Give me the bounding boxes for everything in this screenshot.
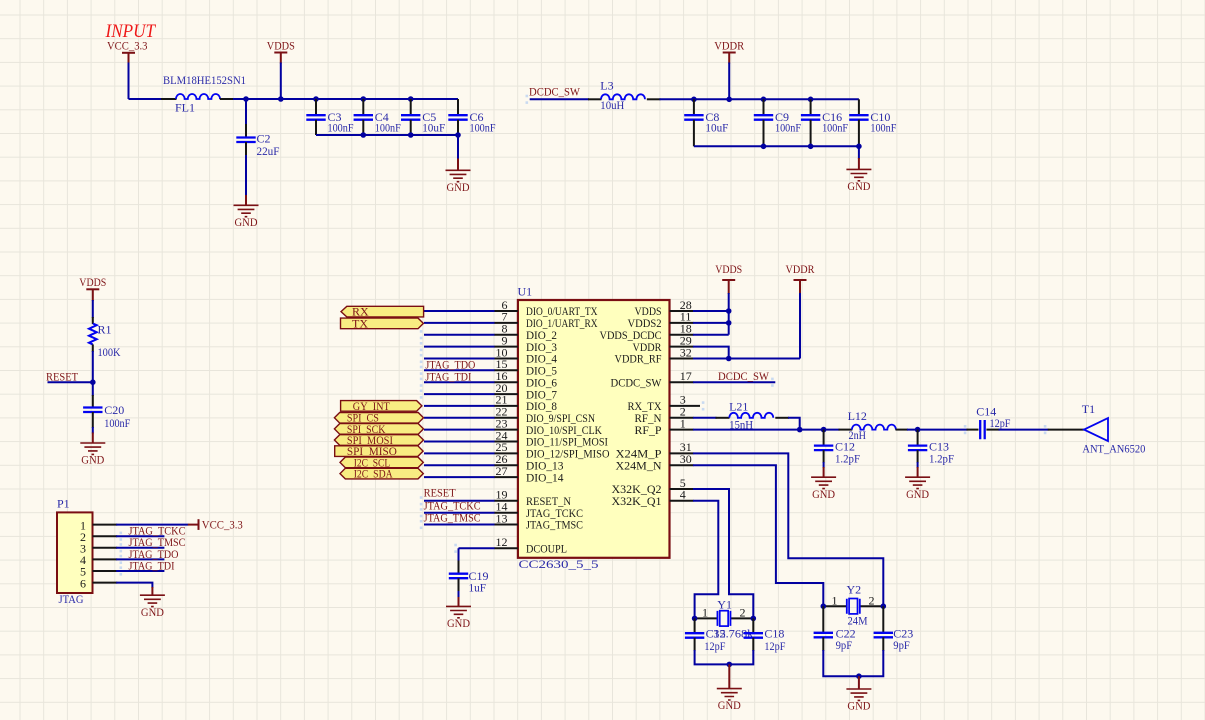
wire pin4 X32K_Q1 to Y1 pin1 — [693, 501, 718, 619]
crystal Y2 24M — [823, 605, 883, 607]
capacitor C10 — [858, 99, 860, 115]
pin 12 DCOUPL — [494, 547, 518, 549]
node Y1 pin1 — [692, 616, 698, 622]
wire C20 to gnd — [92, 427, 94, 434]
svg-text:DCOUPL: DCOUPL — [526, 542, 567, 556]
svg-text:ANT_AN6520: ANT_AN6520 — [1082, 442, 1145, 456]
node pin11 — [726, 320, 732, 326]
wire DIO_3 — [424, 346, 495, 348]
pin 9 DIO_3 — [494, 346, 518, 348]
inductor L12 2nH — [839, 429, 853, 431]
node C8 top — [691, 97, 697, 103]
svg-text:22uF: 22uF — [257, 144, 280, 158]
node C4 top — [361, 96, 367, 102]
svg-text:1uF: 1uF — [469, 581, 487, 595]
svg-text:U1: U1 — [518, 285, 533, 299]
wire pin5 JTAG_TDI — [116, 570, 164, 572]
svg-text:RESET: RESET — [424, 486, 457, 500]
svg-text:100nF: 100nF — [328, 120, 354, 134]
svg-text:10uF: 10uF — [705, 120, 728, 134]
pin 10 DIO_4 — [494, 358, 518, 360]
node VDDS rail — [278, 96, 284, 102]
svg-text:VDDR_RF: VDDR_RF — [615, 352, 662, 366]
svg-text:VDDS: VDDS — [715, 262, 742, 276]
capacitor C12 1.2pF — [823, 430, 825, 446]
pin 6 DIO_0/UART_TX — [494, 310, 518, 312]
inductor L3 10uH — [588, 98, 602, 100]
node C9 top — [761, 97, 767, 103]
pin 27 DIO_14 — [494, 476, 518, 478]
svg-text:I2C_SDA: I2C_SDA — [354, 467, 393, 481]
port RX — [341, 306, 424, 317]
svg-text:VDDR: VDDR — [786, 262, 815, 276]
wire Y2 bottom rail — [823, 650, 883, 676]
svg-text:100nF: 100nF — [470, 120, 496, 134]
node RESET junction — [90, 379, 96, 385]
ground under C12 — [811, 477, 836, 501]
svg-text:JTAG_TDI: JTAG_TDI — [129, 558, 175, 572]
svg-text:JTAG_TMSC: JTAG_TMSC — [526, 518, 583, 532]
wire DIO_9 — [424, 417, 495, 419]
capacitor C6 — [457, 99, 459, 115]
capacitor C3 — [315, 99, 317, 115]
wire end markers — [120, 95, 1047, 576]
pin 1 RF_P — [670, 429, 694, 431]
node C13 tap — [915, 427, 921, 433]
wire DIO_2 — [424, 334, 495, 336]
wire pin32 — [693, 358, 800, 360]
wire bottom rail C8..C10 — [694, 145, 859, 147]
svg-text:1: 1 — [680, 416, 686, 430]
wire pin6 to gnd — [116, 583, 152, 588]
wire C19 to gnd — [458, 591, 460, 598]
wire DIO_5 — [424, 369, 495, 371]
pin 21 DIO_8 — [494, 405, 518, 407]
pin 22 DIO_9/SPI_CSN — [494, 417, 518, 419]
node C5 top — [408, 96, 414, 102]
svg-text:R1: R1 — [98, 323, 112, 337]
svg-text:VDDS: VDDS — [79, 275, 106, 289]
node C10 bottom — [856, 144, 862, 150]
capacitor C19 1uF — [458, 561, 460, 574]
wire pin2 JTAG_TCKC — [116, 535, 164, 537]
svg-text:1.2pF: 1.2pF — [835, 451, 860, 465]
wire pin17 DCDC_SW — [693, 381, 775, 383]
svg-text:27: 27 — [496, 464, 508, 478]
svg-text:9pF: 9pF — [836, 638, 853, 652]
wire DIO_7 — [424, 393, 495, 395]
wire DIO_1 — [424, 322, 495, 324]
svg-text:DCDC_SW: DCDC_SW — [529, 84, 581, 98]
wire C12 to gnd — [823, 462, 825, 468]
capacitor C13 1.2pF — [917, 430, 919, 446]
svg-text:VCC_3.3: VCC_3.3 — [107, 38, 148, 52]
wire pin4 JTAG_TDO — [116, 558, 164, 560]
wire C13 to gnd — [917, 462, 919, 468]
wire main rail left — [129, 98, 163, 100]
wire pin1 RF_P — [693, 429, 840, 431]
node Y1 gnd — [727, 662, 733, 668]
svg-text:DIO_14: DIO_14 — [526, 470, 564, 484]
svg-text:VDDS: VDDS — [267, 38, 295, 52]
port I2C_SDA — [340, 468, 423, 479]
wire VCC_3.3 vertical — [128, 63, 130, 100]
node C16 bottom — [808, 144, 814, 150]
wire VDDR vertical to pin32 — [799, 293, 801, 359]
capacitor C4 — [362, 99, 364, 115]
svg-text:P1: P1 — [57, 497, 70, 511]
node C6 bottom — [455, 132, 461, 138]
svg-text:30: 30 — [680, 452, 692, 466]
wire rail C2 to VDDS — [246, 98, 281, 100]
svg-text:4: 4 — [680, 488, 686, 502]
pin 30 X24M_N — [670, 464, 694, 466]
svg-text:100nF: 100nF — [104, 416, 130, 430]
wire rail L3 to C10 — [660, 98, 859, 100]
ground under Y1 — [717, 689, 742, 713]
inductor L21 15nH — [693, 417, 717, 419]
svg-text:VCC_3.3: VCC_3.3 — [202, 518, 243, 532]
wire DIO_11 — [424, 441, 495, 443]
wire L12 to C14 — [907, 429, 968, 431]
svg-text:12: 12 — [496, 535, 508, 549]
pin 23 DIO_10/SPI_CLK — [494, 429, 518, 431]
capacitor C8 — [693, 99, 695, 115]
pin 8 DIO_2 — [494, 334, 518, 336]
pin 26 DIO_13 — [494, 464, 518, 466]
svg-text:2: 2 — [869, 593, 875, 607]
wire DIO_13 — [424, 464, 495, 466]
svg-text:BLM18HE152SN1: BLM18HE152SN1 — [163, 73, 246, 87]
wire pin12 DCOUPL to C19 — [459, 548, 495, 561]
svg-text:FL1: FL1 — [175, 101, 195, 115]
svg-text:L3: L3 — [600, 79, 613, 93]
wire DCDC_SW to L3 — [530, 98, 589, 100]
wire bottom rail C3..C6 — [316, 134, 458, 136]
port TX — [341, 318, 424, 329]
svg-text:12pF: 12pF — [704, 639, 725, 653]
node C4 bottom — [361, 132, 367, 138]
svg-text:X32K_Q1: X32K_Q1 — [612, 494, 662, 508]
wire DIO_8 — [424, 405, 495, 407]
node C5 bottom — [408, 132, 414, 138]
node Y2 gnd — [856, 673, 862, 679]
pin 5 X32K_Q2 — [670, 488, 694, 490]
pin 11 VDDS2 — [670, 322, 694, 324]
ground under C20 — [80, 443, 105, 467]
svg-text:JTAG: JTAG — [59, 592, 84, 606]
pin 28 VDDS — [670, 310, 694, 312]
wire C2 to gnd — [245, 155, 247, 196]
wire DIO_14 — [424, 476, 495, 478]
node C16 top — [808, 97, 814, 103]
wire DIO_0 — [424, 310, 495, 312]
pin 20 DIO_7 — [494, 393, 518, 395]
wire DIO_4 — [424, 358, 495, 360]
svg-text:1: 1 — [832, 593, 838, 607]
pin 25 DIO_12/SPI_MISO — [494, 452, 518, 454]
svg-text:9pF: 9pF — [893, 638, 910, 652]
svg-text:100nF: 100nF — [870, 120, 896, 134]
svg-text:10uH: 10uH — [600, 98, 624, 112]
wire L21 to RF_P junction — [788, 418, 800, 430]
wire rail to C2 junction — [233, 98, 246, 100]
pin 17 DCDC_SW — [670, 381, 694, 383]
resistor R1 100K — [92, 317, 94, 324]
node RF junction — [797, 427, 803, 433]
svg-text:CC2630_5_5: CC2630_5_5 — [519, 557, 599, 571]
port SPI_SCK — [334, 424, 423, 435]
wire Y1 bottom rail — [695, 650, 754, 664]
wire pin1 to VCC_3.3 — [116, 524, 188, 526]
wire C6 to gnd — [457, 135, 459, 160]
capacitor C20 — [92, 395, 94, 408]
pin 31 X24M_P — [670, 452, 694, 454]
svg-text:6: 6 — [80, 576, 86, 590]
node Y1 pin2 — [751, 616, 757, 622]
node C3 top — [313, 96, 319, 102]
IC U1 body — [518, 300, 670, 558]
node Y2 pin2 — [881, 603, 887, 609]
svg-text:24M: 24M — [848, 614, 868, 628]
node pin28 — [726, 308, 732, 314]
svg-text:100K: 100K — [98, 345, 121, 359]
wire DIO_12 — [424, 452, 495, 454]
svg-text:13: 13 — [496, 511, 508, 525]
svg-text:L12: L12 — [848, 409, 867, 423]
connector P1 body — [57, 512, 93, 593]
wire VDDS vertical to pins 28 11 18 — [728, 293, 730, 335]
svg-text:100nF: 100nF — [375, 120, 401, 134]
wire pin5 X32K_Q2 to Y1 pin2 — [693, 489, 753, 618]
wire pin28 — [693, 310, 729, 312]
ground under C19 — [446, 606, 471, 630]
svg-text:X24M_N: X24M_N — [616, 458, 662, 472]
svg-text:12pF: 12pF — [990, 416, 1011, 430]
capacitor C18 12pF — [752, 618, 754, 633]
svg-text:RF_P: RF_P — [635, 423, 662, 437]
wire pin3 JTAG_TMSC — [116, 547, 164, 549]
wire R1 to junction — [92, 351, 94, 396]
ferrite bead FL1 — [161, 98, 177, 100]
capacitor C14 12pF — [967, 429, 979, 431]
svg-text:100nF: 100nF — [822, 120, 848, 134]
capacitor C2 — [245, 99, 247, 125]
svg-text:17: 17 — [680, 369, 692, 383]
pin 16 DIO_6 — [494, 381, 518, 383]
pin 13 JTAG_TMSC — [494, 524, 518, 526]
crystal Y1 32.768k — [695, 617, 754, 619]
port SPI_MISO — [335, 446, 423, 457]
svg-text:32: 32 — [680, 345, 692, 359]
wire DIO_6 — [424, 381, 495, 383]
ground under Y2 — [846, 689, 871, 713]
wire Y2 to gnd — [858, 676, 860, 689]
wire JTAG_TMSC — [424, 524, 495, 526]
svg-text:JTAG_TDI: JTAG_TDI — [425, 370, 471, 384]
wire JTAG_TCKC — [424, 512, 495, 514]
pin 19 RESET_N — [494, 500, 518, 502]
node C2 junction — [243, 96, 249, 102]
capacitor C16 — [810, 99, 812, 115]
capacitor C5 — [410, 99, 412, 115]
power port VCC_3.3 at P1 — [188, 524, 199, 526]
wire pin18 — [693, 334, 729, 336]
capacitor C23 9pF — [882, 606, 884, 633]
wire RESET — [48, 381, 93, 383]
node VDDR rail — [726, 97, 732, 103]
pin 24 DIO_11/SPI_MOSI — [494, 441, 518, 443]
svg-text:10uF: 10uF — [422, 120, 445, 134]
svg-text:1: 1 — [702, 606, 708, 620]
port SPI_MOSI — [334, 435, 423, 446]
ground under P1 pin6 — [140, 595, 165, 619]
svg-text:1.2pF: 1.2pF — [929, 451, 954, 465]
svg-text:JTAG_TMSC: JTAG_TMSC — [424, 510, 481, 524]
node Y2 pin1 — [821, 603, 827, 609]
pin 7 DIO_1/UART_RX — [494, 322, 518, 324]
port SPI_CS — [334, 413, 423, 424]
pin 3 RX_TX — [670, 405, 701, 407]
svg-text:DCDC_SW: DCDC_SW — [611, 375, 663, 389]
pin 2 RF_N — [670, 417, 694, 419]
wire pin29 — [693, 347, 729, 359]
svg-text:100nF: 100nF — [775, 120, 801, 134]
pin 18 VDDS_DCDC — [670, 334, 694, 336]
wire pin11 — [693, 322, 729, 324]
svg-text:DCDC_SW: DCDC_SW — [718, 369, 770, 383]
port I2C_SCL — [340, 457, 423, 468]
svg-text:L21: L21 — [729, 399, 748, 413]
wire pin31 X24M_P to Y2 pin2 — [693, 453, 883, 606]
wire RESET_N — [424, 500, 495, 502]
node pin29-pin32 join — [726, 356, 732, 362]
capacitor C15 12pF — [694, 618, 696, 633]
pin 14 JTAG_TCKC — [494, 512, 518, 514]
pin 29 VDDR — [670, 346, 694, 348]
ground under C6 — [446, 170, 471, 194]
svg-text:12pF: 12pF — [764, 639, 785, 653]
ground under C13 — [905, 477, 930, 501]
svg-text:2: 2 — [740, 606, 746, 620]
ground under C2 — [234, 205, 259, 229]
pin 32 VDDR_RF — [670, 358, 694, 360]
wire pin30 X24M_N to Y2 pin1 — [693, 465, 823, 606]
wire C10 to gnd — [858, 146, 860, 159]
ground under C10 — [846, 169, 871, 193]
node C12 tap — [821, 427, 827, 433]
node C9 bottom — [761, 144, 767, 150]
svg-text:Y2: Y2 — [847, 582, 862, 596]
svg-text:Y1: Y1 — [717, 598, 732, 612]
svg-text:TX: TX — [352, 316, 368, 330]
pin 4 X32K_Q1 — [670, 500, 694, 502]
pin 15 DIO_5 — [494, 369, 518, 371]
svg-text:2nH: 2nH — [849, 428, 867, 442]
port GY_INT — [341, 401, 422, 412]
wire C14 to antenna — [999, 429, 1049, 431]
antenna T1 ANT_AN6520 — [1084, 418, 1108, 441]
svg-text:T1: T1 — [1082, 402, 1095, 416]
capacitor C22 9pF — [822, 606, 824, 633]
wire DIO_10 — [424, 429, 495, 431]
svg-text:VDDR: VDDR — [714, 38, 744, 52]
capacitor C9 — [763, 99, 765, 115]
wire Y1 to gnd — [728, 664, 730, 688]
wire top rail C3..C6 — [281, 98, 458, 100]
